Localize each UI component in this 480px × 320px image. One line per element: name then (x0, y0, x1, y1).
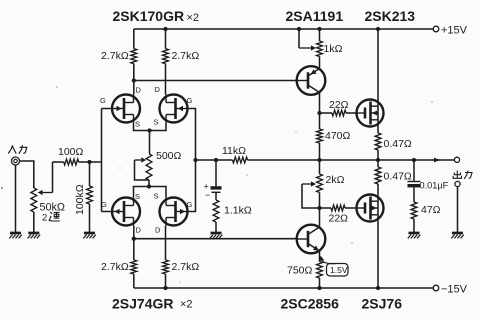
svg-text:2SA1191: 2SA1191 (286, 8, 344, 24)
resistor 2.7k upper-left (131, 49, 137, 64)
svg-text:D: D (136, 86, 142, 95)
svg-text:G: G (187, 200, 193, 209)
wire to 0.01uF (413, 160, 415, 181)
svg-text:750Ω: 750Ω (287, 265, 313, 277)
trimmer 2k wiper (302, 183, 311, 185)
wire output line (320, 159, 455, 161)
svg-text:×2: ×2 (187, 12, 200, 24)
resistor 22 lower (320, 207, 332, 209)
svg-text:−15V: −15V (441, 284, 468, 296)
potentiometer 50k body (31, 188, 37, 212)
wire feedback vertical (188, 109, 196, 212)
wire lower sources tie (134, 187, 167, 198)
svg-text:1.1kΩ: 1.1kΩ (224, 205, 252, 217)
wire collector down (319, 93, 321, 114)
output direction arrow (434, 158, 440, 163)
svg-text:0.01μF: 0.01μF (420, 181, 449, 191)
wire VAS lower (drain to 2SC2856 base) (134, 238, 297, 240)
svg-text:0.47Ω: 0.47Ω (384, 171, 412, 183)
trimmer 500 wiper (135, 159, 142, 161)
electrolytic capacitor (211, 186, 222, 189)
wire 11k to output node (248, 159, 320, 161)
svg-text:500Ω: 500Ω (156, 150, 182, 162)
jfet Q4 2SJ74 right (160, 198, 188, 226)
wire to 500 trimmer (149, 131, 151, 154)
svg-text:100Ω: 100Ω (58, 146, 84, 158)
resistor 470 (317, 129, 323, 143)
resistor 750 (317, 262, 323, 279)
ground 47 (409, 232, 420, 235)
node sources upper (147, 128, 151, 132)
node junction 100k (87, 160, 91, 164)
svg-text:22Ω: 22Ω (329, 99, 349, 111)
svg-text:S: S (154, 118, 159, 127)
wire input to pot (20, 161, 34, 188)
node 750 rail (317, 286, 321, 290)
ground 1.1k (211, 232, 222, 235)
node source upper (376, 158, 380, 162)
transistor 2SA1191 (297, 66, 326, 95)
resistor 2.7k lower-left (131, 260, 137, 274)
svg-text:S: S (135, 120, 140, 129)
input jack terminal (12, 157, 20, 165)
svg-text:S: S (135, 192, 140, 201)
node collector 2SA1191 (317, 111, 321, 115)
svg-text:2.7kΩ: 2.7kΩ (172, 50, 200, 62)
resistor 2.7k upper-right (163, 49, 169, 64)
scan speckles (1, 86, 433, 282)
node zobel (412, 158, 416, 162)
svg-text:2: 2 (42, 213, 47, 224)
node feedback (193, 158, 197, 162)
node drain left lower (132, 237, 136, 241)
svg-text:1kΩ: 1kΩ (324, 43, 343, 55)
svg-text:G: G (101, 200, 107, 209)
output label (shutsuryoku) (453, 171, 472, 179)
node rail upper-right (163, 27, 167, 31)
resistor 11k (233, 157, 248, 163)
node 1k wiper rail (297, 27, 301, 31)
svg-text:11kΩ: 11kΩ (222, 145, 246, 157)
node 2SJ76 rail (376, 286, 380, 290)
ground input jack (10, 232, 21, 235)
wire emitter up (319, 57, 321, 69)
svg-text:2SJ76: 2SJ76 (362, 296, 403, 312)
svg-text:2SK213: 2SK213 (365, 8, 416, 24)
wire gate bus vertical (101, 109, 103, 212)
wire 100ohm to gate line (79, 161, 102, 163)
svg-text:22Ω: 22Ω (329, 213, 349, 225)
node 1k top (317, 27, 321, 31)
svg-text:0.47Ω: 0.47Ω (384, 138, 412, 150)
node output mid (317, 158, 321, 162)
+15V rail (134, 28, 433, 30)
node sources lower (147, 184, 151, 188)
-15V terminal (433, 285, 439, 291)
resistor 100ohm (64, 159, 79, 165)
1.5V adjustment box (327, 264, 349, 277)
node driver lower (317, 206, 321, 210)
wire cap to 47 (413, 187, 415, 202)
resistor 47 (411, 202, 417, 219)
ground output (452, 232, 463, 235)
wire cap to 1.1k (215, 192, 217, 200)
svg-text:1.5V: 1.5V (330, 265, 348, 275)
svg-text:−: − (205, 190, 210, 200)
svg-text:G: G (187, 96, 193, 105)
svg-text:D: D (155, 85, 161, 94)
svg-text:2kΩ: 2kΩ (326, 174, 345, 186)
resistor 0.47 lower (375, 167, 381, 184)
trimmer 1k (317, 41, 323, 57)
svg-text:2.7kΩ: 2.7kΩ (101, 261, 129, 273)
svg-text:G: G (100, 96, 106, 105)
svg-text:D: D (155, 226, 161, 235)
svg-text:470Ω: 470Ω (325, 130, 351, 142)
svg-text:2.7kΩ: 2.7kΩ (172, 261, 200, 273)
svg-text:×2: ×2 (180, 299, 193, 311)
wire VAS upper (drain to 2SA1191 base) (134, 80, 297, 82)
wire upper sources tie (134, 123, 167, 131)
transistor 2SC2856 (297, 225, 326, 254)
capacitor 0.01uF (408, 181, 421, 183)
resistor 0.47 upper (375, 133, 381, 150)
node rail lower-right (163, 286, 167, 290)
ground pot (28, 232, 39, 235)
jfet Q2 2SK170 right (160, 95, 188, 123)
svg-text:2SC2856: 2SC2856 (281, 296, 340, 312)
trimmer 2k (317, 174, 323, 193)
wire 2k to node (319, 193, 321, 209)
wire drain 2SK213 (377, 29, 379, 133)
trimmer 1k wiper (299, 47, 311, 49)
trimmer 500ohm (146, 154, 152, 180)
wire input jack to ground (15, 165, 17, 233)
resistor 2.7k lower-right (163, 260, 169, 274)
output terminal hot (454, 157, 459, 162)
resistor 22 upper (320, 112, 333, 114)
ground 100k (84, 232, 95, 235)
svg-text:+15V: +15V (441, 25, 468, 37)
jfet Q1 2SK170 left (112, 95, 140, 123)
-15V rail (134, 287, 433, 289)
wire 0.47 lower top (377, 160, 379, 167)
svg-text:2SJ74GR: 2SJ74GR (112, 296, 173, 312)
node drain left upper (132, 78, 136, 82)
node drain rail (376, 27, 380, 31)
svg-text:100kΩ: 100kΩ (74, 184, 86, 215)
wire emitter down (319, 251, 321, 262)
wire collector up (319, 208, 321, 227)
+15V terminal (433, 26, 439, 32)
mosfet 2SJ76 (357, 195, 384, 222)
wire feedback to 11k (196, 159, 233, 161)
svg-text:S: S (154, 192, 159, 201)
pot wiper arrow (43, 192, 53, 194)
resistor 1.1k (213, 200, 219, 222)
wire pot to ground (33, 212, 35, 233)
node shunt (214, 158, 218, 162)
wire 500 to lower sources (148, 180, 150, 187)
svg-text:2.7kΩ: 2.7kΩ (101, 50, 129, 62)
wire source 2SJ76 (377, 184, 379, 288)
svg-text:2SK170GR: 2SK170GR (113, 8, 185, 24)
mosfet 2SK213 (357, 100, 384, 127)
svg-text:47Ω: 47Ω (421, 204, 441, 216)
input label (nyuryoku) (8, 145, 27, 154)
resistor 100k (87, 186, 93, 204)
wire to electrolytic (215, 160, 217, 186)
svg-text:D: D (136, 226, 142, 235)
jfet Q3 2SJ74 left (112, 198, 140, 226)
output terminal gnd (455, 181, 460, 186)
